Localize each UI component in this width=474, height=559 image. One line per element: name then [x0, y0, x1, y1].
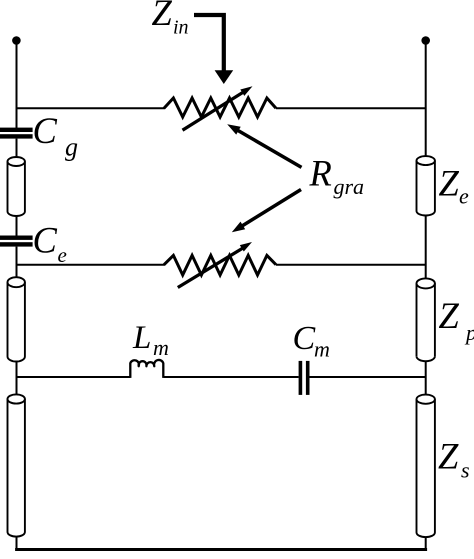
- wire: left rail Ce down through branch2 to cylinder 2: [16, 247, 18, 278]
- impedance element Zs (cylinder): [417, 395, 435, 537]
- label Cg: [33, 110, 79, 162]
- Zin input arrow (bent, pointing down at R1): [194, 15, 233, 84]
- svg-text:Z: Z: [439, 162, 460, 203]
- wire: capacitor Cm to right rail: [310, 376, 426, 378]
- svg-text:Z: Z: [438, 435, 459, 476]
- label Ce: [33, 220, 67, 267]
- wire: left rail Cg to cylinder 1: [16, 139, 18, 157]
- svg-text:L: L: [132, 320, 151, 356]
- svg-text:C: C: [33, 220, 58, 261]
- resistor R1 (variable, Rgra) zigzag: [164, 98, 276, 117]
- svg-text:g: g: [65, 133, 78, 162]
- wire: left rail cylinder 3 to bottom wire: [16, 537, 18, 550]
- label Ze: [439, 162, 470, 208]
- label Lm: [132, 320, 169, 360]
- variable-resistor arrow through R2: [178, 242, 252, 288]
- label Zin: [152, 0, 189, 39]
- svg-text:Z: Z: [439, 295, 460, 336]
- svg-text:m: m: [314, 337, 330, 362]
- wire: middle branch, rail to resistor R2: [17, 264, 166, 266]
- impedance element Zp (cylinder): [417, 278, 435, 361]
- wire: bottom return wire: [15, 548, 427, 551]
- Rgra pointer arrow (upper, to R1): [227, 124, 301, 167]
- electrode cylinder (left, 3): [8, 394, 25, 536]
- wire: inductor Lm to capacitor Cm: [164, 376, 299, 378]
- electrode cylinder (left, 1): [8, 157, 25, 216]
- svg-text:e: e: [459, 184, 469, 209]
- label Zs: [438, 435, 470, 482]
- svg-text:C: C: [293, 320, 316, 357]
- wire: right rail terminal to Ze: [425, 41, 427, 157]
- wire: top branch, rail to resistor R1: [17, 107, 166, 109]
- wire: right rail Zs to bottom wire: [425, 537, 427, 550]
- impedance element Ze (cylinder): [417, 156, 435, 215]
- wire: cylinder 1 to Ce: [16, 216, 18, 236]
- capacitor Ce: [0, 236, 33, 247]
- wire: middle branch, resistor R2 to right rail: [276, 264, 426, 266]
- svg-text:in: in: [173, 17, 189, 39]
- capacitor Cm: [299, 361, 310, 395]
- svg-text:e: e: [58, 243, 67, 267]
- label Zp: [439, 295, 474, 345]
- inductor Lm: [130, 360, 163, 378]
- svg-text:gra: gra: [334, 174, 365, 199]
- svg-text:R: R: [309, 152, 332, 193]
- electrode cylinder (left, 2): [8, 277, 25, 361]
- wire: bottom branch, rail to inductor Lm: [17, 376, 131, 378]
- Rgra pointer arrow (lower, to R2): [232, 190, 301, 233]
- variable-resistor arrow through R1: [183, 86, 253, 130]
- wire: right rail Ze to Zp: [425, 216, 427, 279]
- wire: right rail Zp to Zs: [425, 361, 427, 395]
- node: left top terminal: [12, 36, 21, 45]
- svg-text:p: p: [464, 320, 474, 345]
- svg-text:m: m: [153, 335, 169, 360]
- svg-text:C: C: [33, 110, 58, 151]
- svg-text:s: s: [461, 458, 470, 483]
- label Rgra: [309, 152, 365, 199]
- wire: left rail from terminal to Cg: [16, 41, 18, 129]
- capacitor Cg: [0, 128, 33, 139]
- wire: top branch, resistor R1 to right rail: [276, 107, 426, 109]
- resistor R2 (variable, Rgra) zigzag: [164, 255, 276, 275]
- label Cm: [293, 320, 330, 362]
- wire: left rail cylinder 2 through branch3 to cylinder 3: [16, 362, 18, 395]
- svg-text:Z: Z: [152, 0, 173, 33]
- node: right top terminal: [421, 36, 430, 45]
